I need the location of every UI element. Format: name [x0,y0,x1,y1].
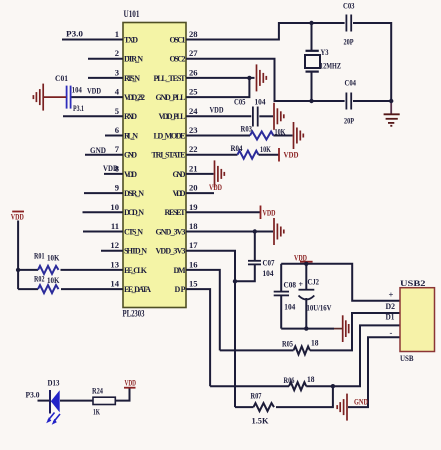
svg-text:4: 4 [115,87,120,97]
svg-text:USB: USB [400,353,414,363]
resistor R07 1.5K [254,403,275,411]
wire pin24 VDD_PLL [186,115,251,117]
wire D13 to R24 [60,400,93,402]
svg-text:7: 7 [115,144,120,154]
svg-text:PL2303: PL2303 [123,309,145,319]
svg-text:22: 22 [189,144,198,154]
svg-text:P3.1: P3.1 [73,103,84,113]
resistor R06 18 [289,382,306,390]
svg-text:D13: D13 [48,378,60,388]
wire pin11 CTS_N [83,231,123,233]
svg-text:1K: 1K [93,407,100,417]
svg-text:17: 17 [189,240,198,250]
svg-text:10K: 10K [47,253,60,263]
wire R07 to junction [276,386,333,407]
svg-text:GND: GND [124,151,137,160]
svg-text:2: 2 [115,48,119,58]
wire C05 to ground [259,115,273,117]
svg-text:104: 104 [284,302,296,312]
wire pin3 RTS_N [88,77,123,79]
svg-text:R02: R02 [34,274,45,284]
ground sideways USB minus [337,394,347,421]
svg-text:20P: 20P [344,37,354,47]
svg-text:10K: 10K [47,275,60,285]
svg-text:+: + [389,290,394,300]
wire pin5 RXD [63,115,123,117]
svg-text:5: 5 [115,106,119,116]
svg-text:CTS_N: CTS_N [124,227,143,236]
svg-text:6: 6 [115,125,120,135]
wire pin6 RL_N [105,135,123,137]
capacitor C05 104 [253,107,258,127]
power VDD top-left [11,212,24,222]
wire C08 bottom stem [280,295,282,328]
wire C03 to right rail [353,23,391,101]
svg-text:10U/16V: 10U/16V [307,303,333,313]
pin names U101 left side [124,35,151,294]
svg-text:VDD: VDD [125,378,137,388]
wire C01 to ground [44,96,66,98]
svg-text:27: 27 [189,48,198,58]
wire pin9 DSR_N [84,192,123,194]
svg-text:VDD_232: VDD_232 [124,93,145,102]
wire R01 to pin13 [61,269,124,271]
wire C07 bottom stem to pin17 rail [235,264,255,281]
wire R24 to VDD [115,389,129,401]
svg-text:13: 13 [110,259,119,269]
capacitor C03 20P [346,15,351,32]
svg-text:D1: D1 [386,312,395,322]
svg-text:19: 19 [189,202,198,212]
svg-text:R24: R24 [92,386,104,396]
wire pin4 VDD_232 [71,96,123,98]
svg-text:9: 9 [115,183,119,193]
svg-text:10K: 10K [260,144,271,154]
svg-text:12: 12 [110,240,119,250]
svg-text:USB2: USB2 [400,278,426,288]
svg-text:C05: C05 [234,97,246,107]
capacitor C08 104 [274,292,289,296]
svg-text:25: 25 [189,87,198,97]
svg-text:18: 18 [311,338,319,348]
capacitor C04 20P [346,93,351,110]
capacitor C01 [67,86,71,109]
svg-text:CJ2: CJ2 [308,277,320,287]
svg-text:R04: R04 [231,143,244,153]
wire pin12 SHTD_N [101,250,123,252]
connector USB2 [400,278,435,363]
svg-text:C04: C04 [345,78,357,88]
svg-text:VDD: VDD [87,85,101,95]
svg-text:DP: DP [175,285,186,294]
wire pin18 GND_3V3 [186,231,273,233]
svg-text:23: 23 [189,125,198,135]
wire pin25 GND_PLL [186,78,249,97]
svg-text:VDD: VDD [210,105,224,115]
junction CJ2 top [304,262,308,266]
svg-text:R03: R03 [241,124,253,134]
capacitor C07 104 [248,261,261,265]
wire R04 to VDD [259,154,280,156]
resistor R05 18 [294,346,310,354]
svg-text:104: 104 [255,97,267,107]
wire pin17 VDD_3V3 down [186,251,235,407]
svg-text:+: + [299,280,304,289]
wire pin23 LD_MODE [186,135,250,137]
svg-text:VDD_PLL: VDD_PLL [159,112,186,121]
wire VDD rail left [17,221,19,290]
wire VDD top rail to USB plus [281,264,400,301]
wire R06 row DP [210,385,289,387]
wire R03 to ground [273,135,292,137]
svg-text:VDD: VDD [11,212,24,222]
svg-text:VDD: VDD [103,163,118,173]
power VDD pin20 [209,182,222,192]
junction pin17-C07 [233,279,237,283]
junction CJ2 bottom [304,326,308,330]
junction R07-R06 [331,384,335,388]
svg-text:EE_CLK: EE_CLK [124,266,148,275]
svg-text:R07: R07 [251,391,263,401]
ground sideways pin26 [257,64,267,91]
svg-text:SHTD_N: SHTD_N [124,247,147,256]
svg-text:DSR_N: DSR_N [124,189,144,198]
ground sideways pin21 [215,160,225,187]
svg-text:15: 15 [189,279,198,289]
svg-text:OSC2: OSC2 [170,55,186,64]
svg-text:VDD_3V3: VDD_3V3 [156,247,186,256]
ground below right rail [384,101,400,126]
resistor R01 10K [38,266,59,274]
LED D13 [46,390,60,425]
wire P3.0 to D13 [38,400,51,402]
svg-text:20: 20 [189,183,198,193]
crystal Y3 12MHZ [305,51,320,72]
svg-text:104: 104 [263,268,275,278]
svg-text:RESET: RESET [165,208,187,217]
ground sideways pin18 [274,218,284,245]
wire pin1 TXD [62,39,123,41]
svg-text:C03: C03 [343,1,355,11]
resistor R03 10K [250,132,273,140]
power VDD pin19 [261,206,276,220]
power VDD bottom [124,378,136,388]
svg-text:VDD: VDD [263,208,276,218]
wire USB minus to GND [348,337,400,407]
junction pin26-pin25 [247,76,251,80]
pin numbers U101 left 1-14 [110,29,119,289]
wire R05 to D2 [310,313,400,350]
svg-text:C01: C01 [55,73,68,83]
svg-text:1: 1 [115,29,119,39]
svg-text:GND_PLL: GND_PLL [156,93,186,102]
wire pin16 DM down [186,270,220,351]
ground sideways C08 block [334,315,349,342]
svg-text:VDD: VDD [284,150,299,160]
svg-text:C07: C07 [263,258,276,268]
junction VDD-R01 [16,268,20,272]
svg-text:R01: R01 [34,251,45,261]
svg-text:RTS_N: RTS_N [124,74,140,83]
wire bottom rail C08 block [281,328,334,330]
power VDD above CJ2 [294,253,313,263]
wire pin7 GND [85,154,123,156]
ground sideways pin24 [274,103,284,130]
junction crystal top [309,21,313,25]
svg-text:3: 3 [115,67,119,77]
svg-text:-: - [390,328,393,338]
svg-text:28: 28 [189,29,198,39]
wire R07 row from VDD_3V3 [235,406,254,408]
wire pin20 VDD [186,192,214,194]
wire VDD to R01 [18,269,38,271]
svg-text:VDD: VDD [294,253,307,263]
pin numbers U101 right 28-15 [189,29,198,289]
wire pin8 VDD [104,173,123,175]
svg-text:21: 21 [189,163,198,173]
op-amp U101 IC body PL2303 [123,9,187,319]
wire pin2 DTR_N [88,58,123,60]
wire pin15 DP down [186,289,210,386]
wire R02 to pin14 [61,288,123,290]
wire R05 row DM [220,349,294,351]
svg-text:12MHZ: 12MHZ [320,61,341,71]
svg-text:Y3: Y3 [321,47,329,57]
wire CJ2 top stem [305,264,307,289]
svg-text:R05: R05 [282,339,293,349]
wire pin28 OSC1 to top rail [186,23,345,40]
ground sideways left of C01 [33,84,43,111]
svg-text:TXD: TXD [124,35,138,44]
svg-text:C08: C08 [284,280,297,290]
wire crystal bottom stem [311,71,313,101]
resistor R02 10K [38,285,59,293]
wire pin19 RESET [186,211,261,213]
wire pin21 GND [186,173,214,175]
svg-text:GND: GND [173,170,186,179]
svg-text:P3.0: P3.0 [66,29,83,39]
svg-text:1.5K: 1.5K [252,416,269,426]
capacitor CJ2 10U/16V polarized [299,290,315,300]
svg-text:20P: 20P [344,116,354,126]
svg-text:TRI_STATE: TRI_STATE [152,151,186,160]
svg-text:U101: U101 [124,9,140,19]
svg-text:RXD: RXD [124,112,137,121]
svg-text:18: 18 [307,374,315,384]
svg-text:10: 10 [110,202,119,212]
svg-text:GND_3V3: GND_3V3 [156,227,186,236]
wire pin26 PLL_TEST [186,77,255,79]
resistor R04 10K [238,151,259,159]
svg-text:18: 18 [189,221,198,231]
svg-text:DCD_N: DCD_N [124,208,144,217]
svg-text:104: 104 [72,85,83,95]
wire pin10 DCD_N [83,211,124,213]
wire R06 to D1 [306,325,400,386]
wire crystal top stem [311,23,313,51]
svg-text:VDD: VDD [173,189,186,198]
svg-text:R06: R06 [284,375,296,385]
svg-text:EE_DATA: EE_DATA [124,285,151,294]
resistor R24 1K box style [93,397,115,404]
svg-text:DM: DM [174,266,186,275]
wire C08 left stem [280,264,282,291]
svg-text:P3.0: P3.0 [26,390,40,400]
svg-text:RL_N: RL_N [124,131,138,140]
pin names U101 right side [152,35,187,294]
svg-text:24: 24 [189,106,198,116]
wire C07 top stem [254,232,256,261]
svg-text:26: 26 [189,67,198,77]
junction crystal bottom [309,99,313,103]
ground sideways R03 [294,122,304,149]
wire C04 to right rail [353,100,391,102]
svg-text:GND: GND [354,397,368,407]
svg-text:VDD: VDD [124,170,137,179]
svg-text:11: 11 [111,221,119,231]
svg-text:PLL_TEST: PLL_TEST [154,74,187,83]
wire pin22 TRI_STATE [186,154,238,156]
svg-text:LD_MODE: LD_MODE [154,131,186,140]
svg-text:VDD: VDD [209,182,222,192]
wire pin27 OSC2 to bottom rail [186,59,345,101]
wire CJ2 bottom stem [305,298,307,329]
junction pin18-C07 [253,229,257,233]
svg-text:16: 16 [189,259,198,269]
svg-text:14: 14 [110,279,119,289]
svg-text:D2: D2 [386,301,396,311]
svg-text:DTR_N: DTR_N [124,55,143,64]
svg-text:GND: GND [90,145,106,155]
wire VDD to R02 [18,288,38,290]
svg-text:OSC1: OSC1 [170,35,186,44]
power VDD pin22 [279,148,299,162]
